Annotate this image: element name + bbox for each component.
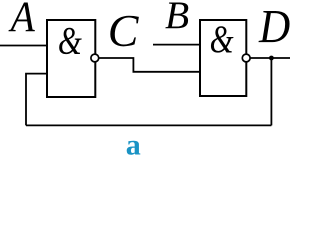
wire bottom feedback rail [26,124,271,126]
svg-text:B: B [165,0,189,37]
junction dot at D branch [269,56,274,61]
svg-text:D: D [258,0,290,53]
inversion bubble U1 output [91,54,99,62]
svg-text:C: C [108,5,140,56]
wire input A [0,45,47,47]
wire input B [153,44,200,46]
svg-text:A: A [8,0,36,40]
wire feedback into U1 lower input [26,74,47,126]
NAND gate U1 (left) body [47,20,95,97]
wire output D [250,57,290,59]
wire node C from U1 output to U2 lower input [99,58,200,72]
wire from node D down to rail [270,58,272,125]
svg-text:&: & [58,18,82,63]
svg-text:a: a [126,129,141,159]
NAND gate U2 (right) body [200,20,246,96]
inversion bubble U2 output [242,54,250,62]
svg-text:&: & [210,16,234,61]
